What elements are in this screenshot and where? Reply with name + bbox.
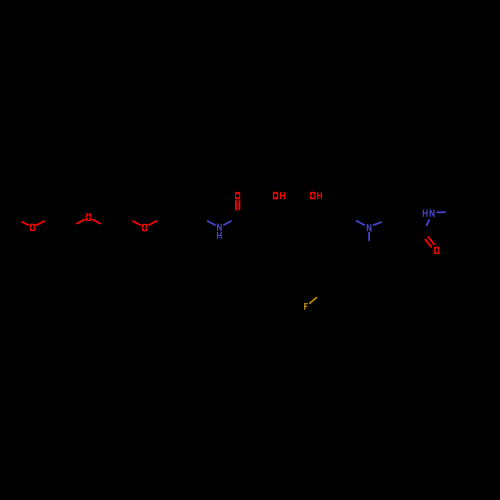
atom O3 ether oxygen <box>142 224 147 232</box>
atom O of hydroxyl OH1 <box>273 192 278 200</box>
atom F fluorine <box>304 303 308 310</box>
wire bond N-C carbonyl (blue half) <box>427 220 430 225</box>
wire bond O2-C (red half) <box>93 220 100 224</box>
atom O of hydroxyl OH2 <box>310 192 315 200</box>
wire bond F-ring (goldenrod half) <box>310 298 317 304</box>
atom O2 ether oxygen <box>86 214 91 222</box>
wire bond chain C-N pyrrole (blue half) <box>357 221 365 225</box>
wire bond C-N amide (blue half) <box>208 221 215 225</box>
wire bond O1-C (red half) <box>37 221 44 225</box>
atom H of hydroxyl OH2 <box>317 192 322 199</box>
wire bond C-O2 (red half) <box>77 220 84 224</box>
atom H of anilide HN <box>423 210 428 217</box>
atom O carbonyl oxygen <box>235 192 240 200</box>
wire bond N pyrrole-C5 ring (blue half) <box>368 233 370 241</box>
wire bond N pyrrole-C2 ring (blue half) <box>374 222 382 225</box>
atom H on amide nitrogen <box>217 232 222 239</box>
atom H of hydroxyl OH1 <box>280 192 285 199</box>
wire bond C-O3 (red half) <box>133 221 140 225</box>
atom N amide nitrogen <box>217 224 222 231</box>
wire bond CH3-O1 (red half) <box>22 222 28 225</box>
double bond C=O carbonyl (red halves) <box>235 201 237 210</box>
wire bond N-C(=O) (blue half) <box>224 221 231 225</box>
atom O anilide carbonyl oxygen <box>434 247 439 255</box>
atom N pyrrole nitrogen <box>367 224 372 231</box>
wire bond N-phenyl (blue half) <box>437 211 445 213</box>
atom N of anilide HN <box>430 210 435 217</box>
wire bond O3-C (red half) <box>149 221 156 225</box>
atom O1 ether oxygen <box>30 224 35 232</box>
double bond C=O anilide (red halves) <box>428 237 434 244</box>
